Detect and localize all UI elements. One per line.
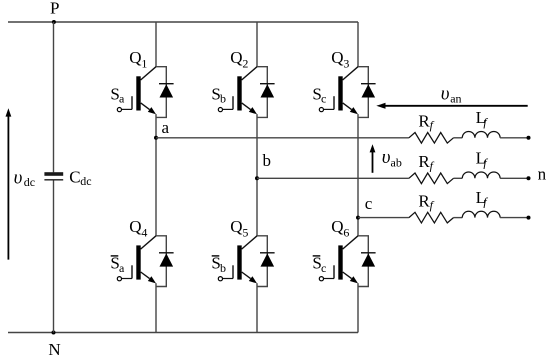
svg-text:c: c xyxy=(321,92,326,106)
svg-text:N: N xyxy=(48,340,60,358)
transistor Q1 (IGBT) xyxy=(132,67,156,115)
wire : bottom rail N xyxy=(8,332,358,334)
wire : L_f to output terminal (phase b) xyxy=(500,177,528,179)
diode D6 (antiparallel with Q6) xyxy=(361,252,376,254)
wire : phase b to filter xyxy=(257,177,409,179)
svg-text:C: C xyxy=(69,167,80,186)
svg-text:c: c xyxy=(321,261,326,275)
svg-text:f: f xyxy=(483,155,488,169)
svg-text:dc: dc xyxy=(80,174,91,188)
svg-text:R: R xyxy=(418,152,430,171)
svg-text:υ: υ xyxy=(441,83,450,104)
gate terminal S wire of Q6 xyxy=(324,278,334,280)
inductor L_f (phase b) xyxy=(462,172,500,178)
svg-text:υ: υ xyxy=(14,167,23,188)
wire : L_f to output terminal (phase c) xyxy=(500,217,528,219)
wire : leg 1 from Q4 to N rail xyxy=(155,283,157,332)
node a : phase a junction xyxy=(154,136,158,140)
svg-text:b: b xyxy=(220,261,226,275)
wire : between R_f and L_f (phase c) xyxy=(454,217,463,219)
label S_b (negated) xyxy=(212,255,220,257)
wire : jog to freewheel diode of Q5 xyxy=(257,236,267,287)
svg-text:f: f xyxy=(430,198,435,212)
svg-text:an: an xyxy=(450,92,461,106)
svg-text:f: f xyxy=(483,115,488,129)
node c : phase c junction xyxy=(356,216,360,220)
svg-text:1: 1 xyxy=(141,56,147,70)
inductor L_f (phase a) xyxy=(462,132,500,138)
wire : leg 2 midsection (phase b) xyxy=(256,114,258,236)
svg-text:a: a xyxy=(162,118,170,137)
wire : jog to freewheel diode of Q1 xyxy=(156,67,166,118)
svg-text:b: b xyxy=(263,151,272,170)
svg-text:P: P xyxy=(50,0,59,17)
transistor Q5 (IGBT) xyxy=(233,236,257,284)
svg-text:n: n xyxy=(538,165,547,184)
svg-text:6: 6 xyxy=(343,225,349,239)
transistor Q3 (IGBT) xyxy=(334,67,358,115)
svg-text:υ: υ xyxy=(382,147,391,168)
wire : phase a to filter xyxy=(156,137,409,139)
wire : capacitor branch bottom xyxy=(53,181,55,333)
svg-text:R: R xyxy=(418,112,430,131)
transistor Q6 (IGBT) xyxy=(334,236,358,284)
wire : between R_f and L_f (phase b) xyxy=(454,177,463,179)
wire : phase c to filter xyxy=(358,217,409,219)
wire : leg 3 midsection (phase c) xyxy=(357,114,359,236)
svg-text:2: 2 xyxy=(242,56,248,70)
svg-text:b: b xyxy=(220,92,226,106)
terminal dot (phase c) xyxy=(527,216,531,220)
gate terminal S wire of Q2 xyxy=(223,108,233,110)
wire : jog to freewheel diode of Q6 xyxy=(358,236,368,287)
diode D1 (antiparallel with Q1) xyxy=(159,83,174,85)
capacitor C_dc xyxy=(44,172,63,176)
svg-text:f: f xyxy=(430,118,435,132)
wire : jog to freewheel diode of Q3 xyxy=(358,67,368,118)
arrow v_dc (DC-link voltage, pointing up) xyxy=(7,115,9,260)
svg-text:Q: Q xyxy=(129,48,141,67)
terminal dot (phase a) xyxy=(527,136,531,140)
svg-text:Q: Q xyxy=(230,217,242,236)
svg-text:ab: ab xyxy=(391,155,402,169)
svg-text:3: 3 xyxy=(343,56,349,70)
wire : jog to freewheel diode of Q4 xyxy=(156,236,166,287)
node b : phase b junction xyxy=(255,176,259,180)
transistor Q4 (IGBT) xyxy=(132,236,156,284)
wire : leg 1 midsection (phase a) xyxy=(155,114,157,236)
transistor Q2 (IGBT) xyxy=(233,67,257,115)
arrow v_ab (pointing up) xyxy=(372,151,374,173)
svg-text:Q: Q xyxy=(331,48,343,67)
arrow v_an (pointing left) xyxy=(385,105,528,107)
svg-text:Q: Q xyxy=(331,217,343,236)
gate terminal S wire of Q4 xyxy=(122,278,132,280)
terminal dot (phase b) xyxy=(527,176,531,180)
svg-text:4: 4 xyxy=(141,225,147,239)
junction : capacitor top on P rail xyxy=(52,20,56,24)
resistor R_f (phase a) xyxy=(409,133,454,144)
wire : leg 2 from Q5 to N rail xyxy=(256,283,258,332)
diode D5 (antiparallel with Q5) xyxy=(260,252,275,254)
svg-text:c: c xyxy=(365,194,373,213)
gate terminal S wire of Q5 xyxy=(223,278,233,280)
wire : leg 2 from P rail to Q2 xyxy=(256,22,258,67)
svg-text:f: f xyxy=(483,195,488,209)
wire : capacitor branch top xyxy=(53,22,55,172)
svg-text:Q: Q xyxy=(230,48,242,67)
wire : leg 3 from P rail to Q3 xyxy=(357,22,359,67)
junction : capacitor bottom on N rail xyxy=(52,331,56,335)
svg-text:dc: dc xyxy=(24,175,35,189)
diode D2 (antiparallel with Q2) xyxy=(260,83,275,85)
diode D4 (antiparallel with Q4) xyxy=(159,252,174,254)
svg-text:a: a xyxy=(119,92,125,106)
resistor R_f (phase c) xyxy=(409,212,454,223)
svg-text:Q: Q xyxy=(129,217,141,236)
wire : top rail P xyxy=(8,21,358,23)
wire : jog to freewheel diode of Q2 xyxy=(257,67,267,118)
svg-text:5: 5 xyxy=(242,225,248,239)
gate terminal S wire of Q1 xyxy=(122,108,132,110)
diode D3 (antiparallel with Q3) xyxy=(361,83,376,85)
resistor R_f (phase b) xyxy=(409,173,454,184)
svg-text:R: R xyxy=(418,191,430,210)
svg-text:a: a xyxy=(119,261,125,275)
wire : leg 3 from Q6 to N rail xyxy=(357,283,359,332)
inductor L_f (phase c) xyxy=(462,211,500,217)
gate terminal S wire of Q3 xyxy=(324,108,334,110)
label S_c (negated) xyxy=(313,255,321,257)
wire : L_f to output terminal (phase a) xyxy=(500,137,528,139)
wire : between R_f and L_f (phase a) xyxy=(454,137,463,139)
wire : leg 1 from P rail to Q1 xyxy=(155,22,157,67)
label S_a (negated) xyxy=(111,255,119,257)
svg-text:f: f xyxy=(430,159,435,173)
